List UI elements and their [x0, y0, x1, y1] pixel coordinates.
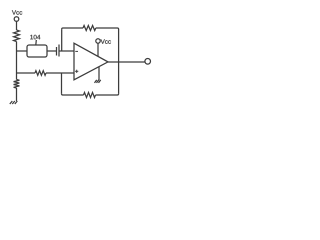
output terminal circle — [145, 59, 151, 65]
resistor R4 (bottom feedback) — [84, 92, 96, 97]
wire op-amp to ground stub — [98, 67, 100, 81]
wire Vcc stub to op-amp — [97, 43, 99, 56]
wire Vcc to R1 — [16, 21, 18, 30]
wire right feedback vertical — [118, 29, 120, 94]
ground (op-amp) — [95, 80, 101, 83]
wire C1 to op-amp inverting input — [59, 50, 74, 52]
wire node A to resonator box — [17, 50, 28, 52]
resistor R5 (vertical, lower-left) — [14, 80, 20, 89]
capacitor C1 left plate — [56, 47, 58, 56]
wire left rail R1 to R5 — [16, 42, 18, 80]
wire top feedback left — [62, 28, 83, 29]
non-inverting input plus sign — [75, 70, 78, 72]
wire bottom feedback left — [62, 94, 84, 95]
wire top feedback right — [96, 28, 119, 29]
op-amp U1 triangle — [74, 43, 108, 80]
resonator X1 box — [27, 45, 47, 57]
capacitor C1 right plate — [58, 45, 60, 57]
wire R5 to ground — [16, 88, 18, 101]
resistor R2 (series, non-inverting input) — [35, 71, 46, 76]
wire bottom feedback branch down — [61, 73, 63, 94]
Vcc terminal circle (op-amp supply) — [96, 39, 100, 43]
resonator value label 104 — [30, 35, 40, 40]
inverting input minus sign — [75, 50, 78, 52]
leader tick from label to box — [35, 40, 38, 45]
Vcc terminal circle (top-left) — [14, 17, 19, 22]
wire op-amp output — [108, 61, 145, 63]
resistor R3 (top feedback) — [83, 25, 96, 30]
Vcc supply label (op-amp) — [101, 39, 111, 43]
wire feedback branch up — [61, 29, 63, 51]
Vcc supply label (top-left) — [12, 10, 22, 14]
wire node A to R2 — [17, 72, 36, 74]
resistor R1 (vertical, upper-left) — [14, 30, 20, 42]
wire box to C1 — [47, 50, 57, 52]
ground (lower-left) — [10, 101, 17, 104]
wire bottom feedback right — [96, 94, 119, 95]
wire R2 to op-amp non-inverting input — [46, 72, 74, 74]
